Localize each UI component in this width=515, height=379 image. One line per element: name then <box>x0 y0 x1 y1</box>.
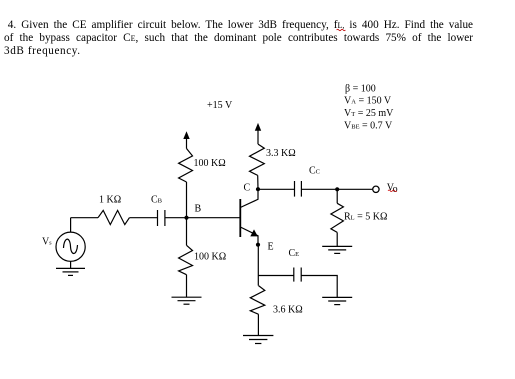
ground (RL) <box>322 246 352 253</box>
capacitor CE <box>294 268 301 282</box>
svg-text:100 KΩ: 100 KΩ <box>194 158 226 169</box>
ground (CE) <box>322 297 352 304</box>
wire CC to output terminal <box>301 188 372 190</box>
wire R1 to node B <box>186 182 188 218</box>
problem statement text <box>4 19 473 59</box>
svg-text:CB: CB <box>151 194 163 205</box>
svg-text:+15 V: +15 V <box>207 100 233 111</box>
wire node to RL <box>336 189 338 203</box>
resistor RE 3.6 Kohm <box>250 286 264 315</box>
ground (source) <box>56 268 85 275</box>
wire CE to ground drop <box>301 276 337 298</box>
wire Vs to R3 <box>71 217 98 219</box>
wire Vs top to input wire <box>70 218 72 232</box>
svg-text:E: E <box>268 241 274 252</box>
svg-text:C: C <box>244 182 251 193</box>
resistor R1 100 Kohm (upper bias) <box>179 149 193 183</box>
wire node B down to R2 <box>186 218 188 246</box>
wire RE to ground <box>257 314 259 335</box>
node at RL branch <box>335 187 339 191</box>
resistor R3 1 Kohm <box>98 210 129 224</box>
svg-text:100 KΩ: 100 KΩ <box>194 251 226 262</box>
wire Vs bottom to ground <box>70 261 72 268</box>
power arrow left (+15V to R1) <box>183 131 189 148</box>
wire node C to CC <box>258 188 295 190</box>
power arrow right (+15V to RC) <box>255 123 261 144</box>
capacitor CC <box>295 181 302 197</box>
svg-text:1 KΩ: 1 KΩ <box>99 194 121 205</box>
svg-text:β = 100: β = 100 <box>345 83 376 94</box>
svg-text:B: B <box>195 204 202 215</box>
svg-text:Vs: Vs <box>42 237 52 248</box>
node C <box>256 187 260 191</box>
transistor Q1 <box>240 189 258 245</box>
ground (bias divider) <box>172 297 202 304</box>
node B <box>184 216 188 220</box>
source Vs <box>56 232 85 261</box>
wire E branch to CE <box>258 275 294 277</box>
svg-text:o: o <box>393 184 398 195</box>
ground (RE) <box>243 336 273 344</box>
svg-text:3.3 KΩ: 3.3 KΩ <box>266 148 296 159</box>
output terminal circle <box>373 186 379 192</box>
svg-text:CC: CC <box>309 165 320 176</box>
resistor R2 100 Kohm (lower bias) <box>179 245 193 274</box>
wire RC to node C <box>257 175 259 189</box>
wire CB to transistor base <box>165 217 240 219</box>
resistor RC 3.3 Kohm <box>250 144 265 175</box>
wire RL to ground <box>336 232 338 246</box>
svg-text:RL = 5 KΩ: RL = 5 KΩ <box>344 211 387 222</box>
resistor RL 5 Kohm <box>331 203 344 232</box>
svg-text:3.6 KΩ: 3.6 KΩ <box>273 304 303 315</box>
wire E down <box>257 245 259 286</box>
red squiggle under fL <box>337 29 346 30</box>
node E <box>256 243 260 247</box>
label Vo <box>387 182 398 195</box>
svg-text:VT = 25 mV: VT = 25 mV <box>344 108 394 119</box>
svg-text:VBE = 0.7 V: VBE = 0.7 V <box>344 120 393 131</box>
wire R3 to CB <box>129 217 157 219</box>
wire R2 to ground <box>186 275 188 298</box>
capacitor CB <box>158 210 165 226</box>
svg-text:CE: CE <box>289 248 300 259</box>
svg-text:VA = 150 V: VA = 150 V <box>344 96 392 107</box>
